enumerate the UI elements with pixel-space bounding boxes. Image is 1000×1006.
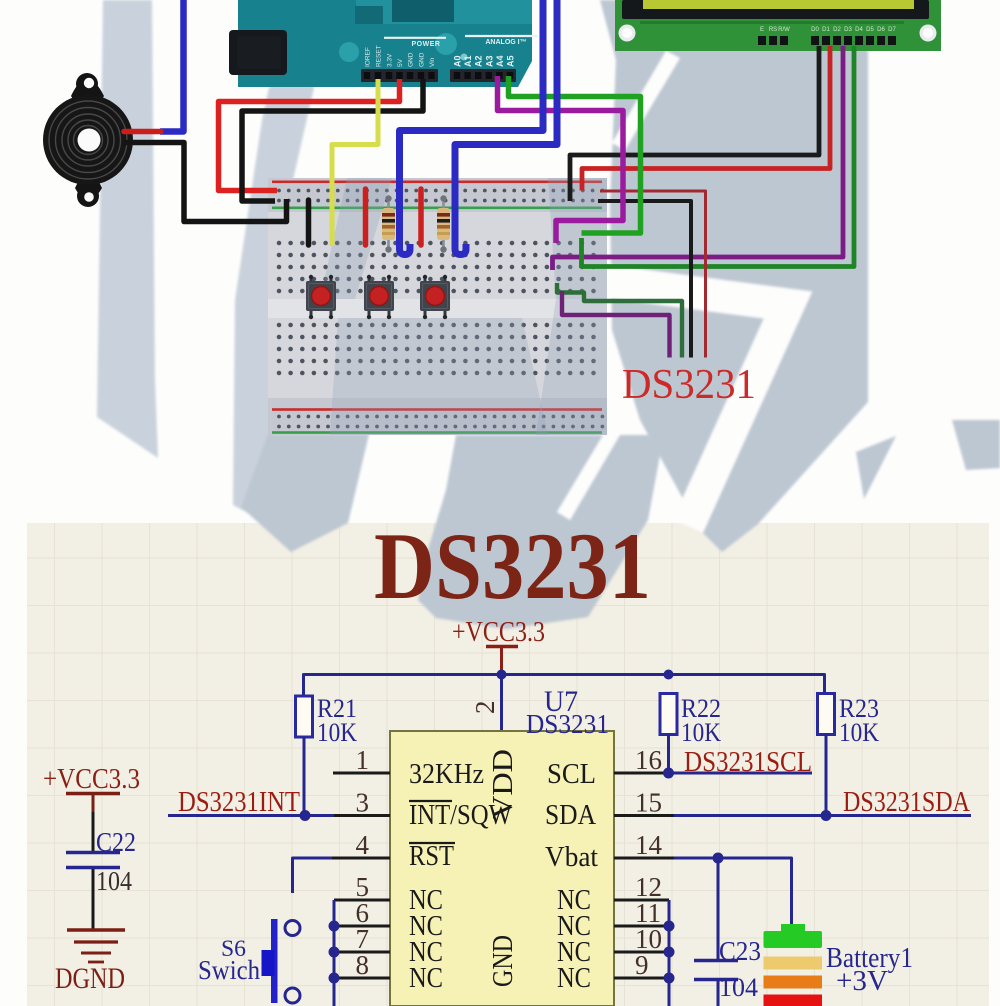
svg-text:1: 1 bbox=[356, 745, 370, 775]
svg-text:+3V: +3V bbox=[836, 966, 888, 997]
svg-text:RESET: RESET bbox=[376, 45, 383, 67]
svg-text:104: 104 bbox=[96, 866, 132, 896]
svg-text:NC: NC bbox=[409, 962, 443, 994]
svg-text:14: 14 bbox=[635, 830, 663, 860]
svg-text:IOREF: IOREF bbox=[365, 47, 372, 67]
svg-text:A4: A4 bbox=[495, 55, 505, 67]
svg-text:D5: D5 bbox=[866, 27, 874, 33]
svg-text:ANALOG I™: ANALOG I™ bbox=[485, 39, 526, 46]
svg-text:GND: GND bbox=[408, 52, 415, 67]
svg-text:C22: C22 bbox=[96, 827, 136, 857]
svg-text:15: 15 bbox=[635, 788, 662, 818]
svg-text:32KHz: 32KHz bbox=[409, 758, 484, 790]
svg-text:D3: D3 bbox=[844, 27, 852, 33]
svg-text:DS3231SCL: DS3231SCL bbox=[684, 746, 812, 778]
svg-text:A0: A0 bbox=[453, 55, 463, 67]
svg-text:DS3231: DS3231 bbox=[622, 362, 756, 408]
svg-text:3: 3 bbox=[356, 788, 370, 818]
svg-text:8: 8 bbox=[356, 950, 370, 980]
svg-text:Vin: Vin bbox=[429, 57, 436, 67]
svg-text:3.3V: 3.3V bbox=[387, 53, 394, 67]
svg-text:D2: D2 bbox=[833, 27, 841, 33]
svg-text:DS3231: DS3231 bbox=[374, 513, 651, 619]
svg-text:2: 2 bbox=[470, 701, 500, 715]
svg-text:A2: A2 bbox=[474, 55, 484, 67]
svg-text:D0: D0 bbox=[811, 27, 819, 33]
svg-text:16: 16 bbox=[635, 745, 662, 775]
svg-text:E: E bbox=[760, 27, 764, 33]
svg-text:DS3231INT: DS3231INT bbox=[178, 786, 300, 818]
svg-text:10K: 10K bbox=[681, 718, 721, 747]
svg-text:5V: 5V bbox=[397, 58, 404, 67]
svg-text:SDA: SDA bbox=[545, 799, 596, 831]
svg-text:C23: C23 bbox=[719, 936, 761, 966]
svg-text:D4: D4 bbox=[855, 27, 863, 33]
svg-text:R/W: R/W bbox=[778, 27, 790, 33]
svg-text:10K: 10K bbox=[317, 718, 357, 747]
svg-text:RS: RS bbox=[769, 27, 777, 33]
svg-text:RST: RST bbox=[409, 840, 454, 872]
svg-text:DS3231SDA: DS3231SDA bbox=[843, 786, 970, 818]
svg-text:GND: GND bbox=[419, 52, 426, 67]
svg-text:VDD: VDD bbox=[487, 749, 519, 819]
svg-text:+VCC3.3: +VCC3.3 bbox=[43, 763, 140, 795]
svg-text:DGND: DGND bbox=[55, 962, 125, 995]
svg-text:A1: A1 bbox=[463, 55, 473, 67]
svg-text:Vbat: Vbat bbox=[545, 841, 598, 873]
svg-text:D6: D6 bbox=[877, 27, 885, 33]
svg-text:GND: GND bbox=[487, 935, 519, 987]
svg-text:D1: D1 bbox=[822, 27, 830, 33]
svg-text:POWER: POWER bbox=[412, 41, 441, 48]
svg-text:A5: A5 bbox=[506, 55, 516, 67]
svg-text:SCL: SCL bbox=[547, 758, 596, 790]
svg-text:D7: D7 bbox=[888, 27, 896, 33]
svg-text:NC: NC bbox=[557, 962, 591, 994]
svg-text:9: 9 bbox=[635, 950, 649, 980]
svg-text:A3: A3 bbox=[484, 55, 494, 67]
svg-text:Swich: Swich bbox=[198, 955, 260, 985]
svg-text:104: 104 bbox=[719, 973, 758, 1002]
svg-text:4: 4 bbox=[356, 830, 370, 860]
svg-text:+VCC3.3: +VCC3.3 bbox=[452, 617, 545, 648]
svg-text:10K: 10K bbox=[839, 718, 879, 747]
svg-text:DS3231: DS3231 bbox=[526, 709, 609, 739]
